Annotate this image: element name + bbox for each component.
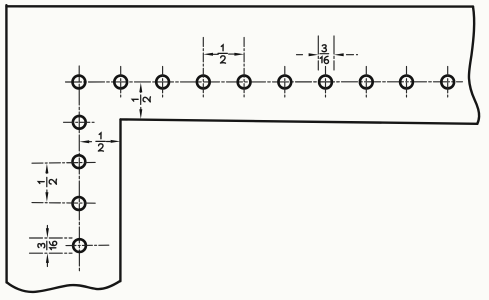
- D4 text 1/2: [96, 133, 105, 151]
- plate top edge: [7, 5, 474, 8]
- plate right break line: [469, 7, 479, 124]
- D2 right leader and arrowhead: [347, 54, 358, 56]
- hole L3 centerline extended left as extension line: [32, 161, 96, 164]
- D4 left arrowhead: [80, 140, 90, 143]
- hole H1 corner: [73, 76, 86, 89]
- hole H9 centerline: [406, 67, 408, 98]
- hole H8 centerline: [365, 67, 367, 98]
- plate left edge: [5, 5, 8, 282]
- dimension D4 horizontal 1/2 from column centerline to inner edge: [89, 141, 92, 143]
- plate inner vertical edge: [119, 119, 121, 281]
- hole H6 centerline: [284, 67, 286, 98]
- row centerline (top row of holes): [66, 81, 463, 83]
- hole H2 top row: [114, 76, 127, 89]
- hole L2 left column: [73, 116, 86, 129]
- hole H4 centerline extended up as extension line: [202, 38, 204, 98]
- hole H3 centerline: [162, 67, 164, 98]
- D1 text 1/2: [218, 45, 227, 63]
- column centerline (left column of holes): [78, 66, 80, 271]
- hole L3 left column: [73, 155, 86, 168]
- D6 extension line bottom: [30, 252, 73, 254]
- D6 bottom leader and arrowhead: [46, 263, 48, 267]
- hole H8 top row: [360, 76, 373, 89]
- hole L2 centerline: [64, 121, 96, 123]
- D5 bottom arrowhead: [45, 192, 48, 202]
- hole H6 top row: [278, 76, 291, 89]
- D5 top arrowhead: [45, 164, 48, 174]
- D2 extension line right: [333, 36, 335, 70]
- hole H9 top row: [400, 76, 413, 89]
- hole L5 centerline: [66, 244, 109, 246]
- hole H5 centerline extended up as extension line: [243, 38, 245, 98]
- D3 bottom arrowhead: [139, 109, 142, 119]
- hole H3 top row: [156, 76, 169, 89]
- D3 top arrowhead: [139, 83, 142, 93]
- hole H4 top row: [197, 76, 210, 89]
- hole L5 left column: [73, 239, 86, 252]
- hole H10 centerline: [447, 67, 449, 98]
- hole H10 top row: [441, 76, 454, 89]
- D6 extension line top: [30, 237, 73, 239]
- plate inner horizontal edge: [121, 119, 478, 123]
- D6 rotated text 3/16: [38, 241, 57, 250]
- D3 rotated text 1/2: [132, 95, 150, 104]
- hole H7 top row: [319, 76, 332, 89]
- D6 top leader and arrowhead: [46, 226, 48, 229]
- D1 left arrowhead: [203, 53, 213, 56]
- D2 left leader and arrowhead: [297, 54, 306, 56]
- hole L4 centerline extended left as extension line: [32, 202, 96, 205]
- D4 right arrowhead: [111, 140, 121, 143]
- D2 extension line left: [317, 36, 319, 70]
- plate bottom break line: [7, 281, 120, 292]
- dimension D3 vertical 1/2 from row centerline to inner edge: [140, 91, 142, 93]
- dimension D1 top 1/2 between H4 and H5: [213, 53, 235, 55]
- hole H7 centerline: [325, 67, 327, 98]
- hole H5 top row: [238, 76, 251, 89]
- D1 right arrowhead: [234, 53, 244, 56]
- D5 rotated text 1/2: [38, 177, 56, 186]
- D2 text 3/16: [320, 45, 329, 64]
- hole L4 left column: [73, 197, 86, 210]
- hole H2 centerline: [120, 67, 122, 98]
- dimension D5 vertical 1/2 between L3 and L4: [46, 172, 48, 174]
